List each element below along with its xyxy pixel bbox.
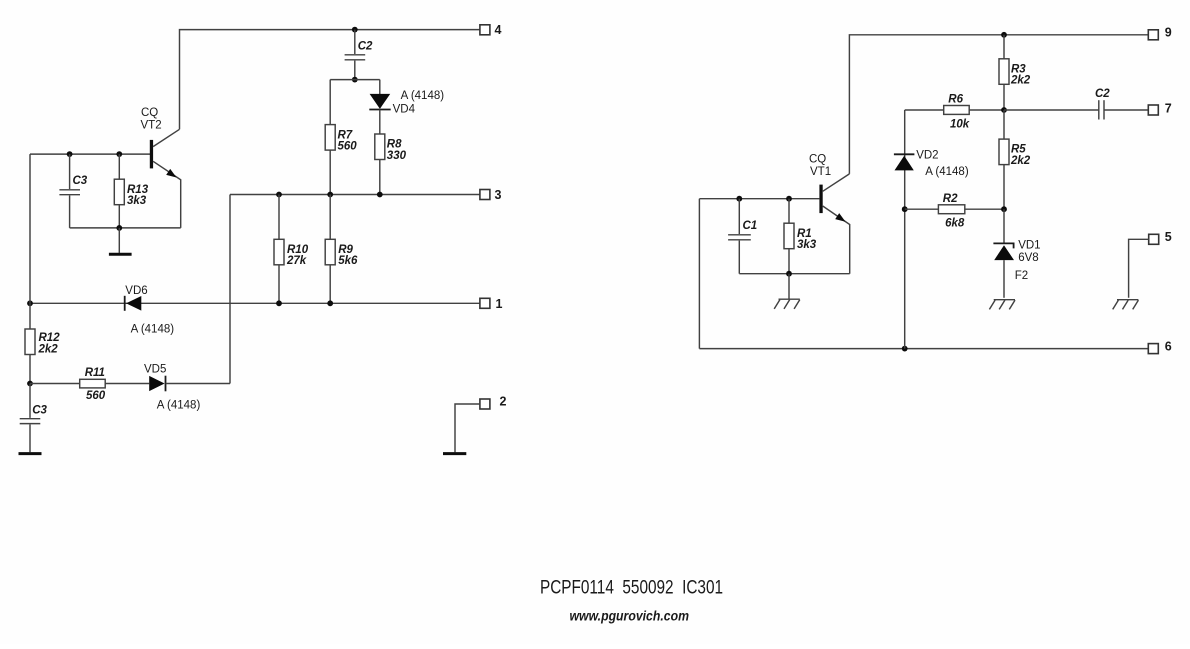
- resistor R6: [944, 106, 970, 115]
- svg-text:2k2: 2k2: [38, 343, 59, 355]
- svg-text:2k2: 2k2: [1010, 75, 1031, 87]
- svg-text:VT1: VT1: [810, 166, 831, 178]
- svg-text:2: 2: [500, 395, 507, 409]
- node R2 right: [1001, 206, 1007, 212]
- svg-text:VD1: VD1: [1018, 240, 1040, 252]
- svg-text:R10: R10: [287, 244, 309, 256]
- svg-text:CQ: CQ: [141, 107, 158, 119]
- svg-text:10k: 10k: [950, 118, 970, 130]
- svg-text:F2: F2: [1015, 270, 1028, 282]
- svg-text:R12: R12: [39, 332, 61, 344]
- svg-text:C1: C1: [743, 220, 758, 232]
- node line 6: [902, 346, 908, 352]
- resistor R2: [938, 205, 964, 214]
- resistor R12: [25, 329, 35, 355]
- resistor R5: [999, 139, 1009, 165]
- transistor VT2: [150, 140, 153, 169]
- node base-C3: [67, 151, 73, 157]
- diode VD6: [126, 296, 141, 311]
- svg-text:560: 560: [86, 390, 106, 402]
- wire VD4 to R8: [379, 110, 381, 135]
- svg-text:PCPF0114 550092 IC301: PCPF0114 550092 IC301: [540, 577, 723, 599]
- node R10 bottom: [276, 300, 282, 306]
- node R10 top: [276, 192, 282, 198]
- terminal 6: [1148, 344, 1158, 354]
- wire R8 bottom: [379, 160, 381, 195]
- wire VD4 top: [379, 80, 381, 95]
- node R8 bottom: [377, 192, 383, 198]
- svg-text:6k8: 6k8: [945, 217, 965, 229]
- svg-text:4: 4: [495, 23, 502, 37]
- svg-text:7: 7: [1165, 101, 1172, 115]
- wire branch bar: [330, 79, 380, 81]
- wire R2 left: [905, 208, 939, 210]
- svg-text:A (4148): A (4148): [925, 166, 969, 178]
- node base-R13: [116, 151, 122, 157]
- ground under VD1: [994, 299, 1015, 301]
- terminal 5: [1149, 234, 1159, 244]
- svg-text:R11: R11: [85, 367, 105, 379]
- wire VT2 base: [30, 153, 150, 155]
- wire R6 left: [905, 109, 944, 111]
- capacitor C2 right: [1098, 100, 1100, 119]
- node R2 left: [902, 206, 908, 212]
- wire top rail to terminal 9: [849, 35, 1148, 174]
- wire C2 to terminal 7: [1104, 109, 1148, 111]
- wire R7 bottom: [329, 150, 331, 194]
- svg-text:www.pgurovich.com: www.pgurovich.com: [570, 608, 690, 624]
- wire line 3: [230, 194, 481, 196]
- svg-text:6: 6: [1165, 339, 1172, 353]
- svg-text:VD5: VD5: [144, 364, 166, 376]
- svg-text:3: 3: [495, 188, 502, 202]
- capacitor C3 upper: [69, 154, 71, 189]
- svg-text:R9: R9: [338, 244, 353, 256]
- svg-text:3k3: 3k3: [127, 195, 147, 207]
- left rail right circuit: [698, 199, 700, 349]
- wire R7 top: [329, 80, 331, 125]
- node below C2: [352, 77, 358, 83]
- svg-text:330: 330: [387, 150, 407, 162]
- svg-text:R13: R13: [127, 184, 149, 196]
- node R9 bottom: [327, 300, 333, 306]
- resistor R11: [80, 379, 106, 388]
- svg-text:CQ: CQ: [809, 153, 826, 165]
- svg-text:27k: 27k: [286, 255, 307, 267]
- wire terminal 5 to ground: [1129, 239, 1149, 297]
- resistor R7: [325, 125, 335, 151]
- svg-text:R2: R2: [943, 193, 958, 205]
- svg-text:5: 5: [1165, 230, 1172, 244]
- svg-text:A (4148): A (4148): [157, 400, 201, 412]
- svg-text:C3: C3: [73, 175, 88, 187]
- wire top rail to terminal 4: [180, 30, 481, 130]
- terminal 7: [1148, 105, 1158, 115]
- svg-text:560: 560: [338, 141, 358, 153]
- diode VD4: [370, 94, 391, 109]
- capacitor C1: [738, 199, 740, 234]
- capacitor C2: [354, 30, 356, 54]
- terminal 9: [1148, 30, 1158, 40]
- svg-text:R5: R5: [1011, 144, 1026, 156]
- ground under C3: [19, 452, 42, 455]
- ground terminal 5: [1117, 299, 1138, 301]
- svg-text:R1: R1: [797, 228, 812, 240]
- ground terminal 2: [443, 452, 466, 455]
- wire R2 right: [965, 208, 1004, 210]
- node R3 top: [1001, 32, 1007, 38]
- wire line 6: [699, 348, 1148, 350]
- ground under R13: [118, 228, 120, 253]
- resistor R8: [375, 134, 385, 160]
- node R11 left: [27, 381, 33, 387]
- wire R10 bottom: [278, 265, 280, 304]
- diode VD5: [149, 376, 164, 391]
- wire R9 top: [329, 195, 331, 240]
- resistor R1: [788, 199, 790, 224]
- resistor R9: [325, 239, 335, 264]
- node base-R1: [786, 196, 792, 202]
- svg-text:R8: R8: [387, 139, 402, 151]
- zener VD1: [993, 243, 1013, 248]
- wire R6 right: [969, 109, 1004, 111]
- wire terminal 2 to ground: [455, 404, 480, 452]
- terminal 3: [480, 190, 490, 200]
- terminal 1: [480, 298, 490, 308]
- svg-text:VD2: VD2: [916, 150, 938, 162]
- wire VD2 branch vertical: [904, 110, 906, 349]
- wire R10 top: [278, 195, 280, 240]
- node R1 bottom: [786, 271, 792, 277]
- wire line 7 to C2: [1004, 109, 1099, 111]
- wire R11 to VD5: [105, 383, 149, 385]
- diode VD2: [895, 156, 914, 171]
- wire VT1 base: [699, 198, 819, 200]
- node R9 top: [327, 192, 333, 198]
- svg-text:R7: R7: [338, 129, 353, 141]
- svg-text:3k3: 3k3: [797, 239, 817, 251]
- svg-text:A (4148): A (4148): [131, 323, 175, 335]
- capacitor C3 lower: [29, 384, 31, 418]
- node C2 top: [352, 27, 358, 33]
- svg-text:R6: R6: [948, 94, 963, 106]
- node line 7: [1001, 107, 1007, 113]
- wire line 1: [30, 302, 481, 304]
- svg-text:VD4: VD4: [393, 103, 416, 115]
- node R13 bottom: [116, 225, 122, 231]
- svg-text:VD6: VD6: [125, 285, 147, 297]
- resistor R13: [118, 154, 120, 179]
- transistor VT1: [819, 185, 822, 214]
- svg-text:5k6: 5k6: [338, 255, 358, 267]
- svg-text:C2: C2: [358, 40, 373, 52]
- node base-C1: [736, 196, 742, 202]
- wire emitter loop: [70, 227, 181, 229]
- svg-text:A (4148): A (4148): [401, 90, 445, 102]
- left rail: [29, 154, 31, 329]
- wire to VD1: [1003, 209, 1005, 244]
- ground under R1: [788, 274, 790, 300]
- terminal 4: [480, 25, 490, 35]
- svg-text:6V8: 6V8: [1018, 252, 1038, 264]
- wire riser to line 3: [229, 195, 231, 384]
- wire R5 top: [1003, 110, 1005, 139]
- wire R9 bottom: [329, 265, 331, 304]
- svg-text:VT2: VT2: [141, 119, 162, 131]
- svg-text:2k2: 2k2: [1010, 155, 1031, 167]
- svg-text:C2: C2: [1095, 88, 1110, 100]
- terminal 2: [480, 399, 490, 409]
- svg-text:1: 1: [496, 297, 503, 311]
- svg-text:9: 9: [1165, 26, 1172, 40]
- wire emitter bottom: [739, 273, 849, 275]
- wire VD5 right: [166, 383, 231, 385]
- resistor R3: [1003, 35, 1005, 59]
- svg-text:R3: R3: [1011, 63, 1026, 75]
- node line1 left: [27, 300, 33, 306]
- svg-text:C3: C3: [32, 405, 47, 417]
- wire R11 left: [30, 383, 80, 385]
- resistor R10: [274, 239, 284, 264]
